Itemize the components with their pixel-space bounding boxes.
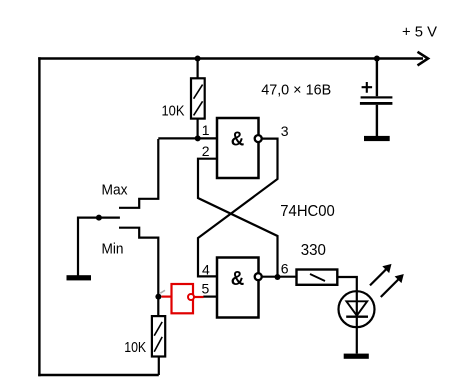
ground (capacitor): [364, 136, 390, 141]
svg-text:5: 5: [202, 280, 210, 296]
svg-text:1: 1: [202, 122, 210, 138]
wire Max switch upper lead: [119, 139, 158, 208]
NAND gate U1A 74HC00 body: [217, 118, 259, 178]
svg-text:330: 330: [301, 242, 326, 259]
capacitor C1 bottom plate: [360, 102, 393, 105]
wire R3 to LED: [337, 277, 357, 291]
svg-text:10K: 10K: [162, 102, 185, 119]
highlighted red inverter: body: [172, 284, 194, 313]
wire R2 bottom stem: [158, 357, 160, 376]
junction pin6 node: [275, 274, 281, 280]
LED D1 cathode bar: [346, 316, 368, 318]
resistor R1 interior strokes: [194, 85, 203, 116]
wire +5V top rail: [38, 57, 423, 59]
svg-text:47,0 × 16B: 47,0 × 16B: [261, 81, 331, 98]
resistor 330 (R3) body: [297, 270, 338, 285]
highlighted red inverter: left stub wire: [162, 296, 172, 298]
junction Min node / R2: [155, 294, 161, 300]
capacitor C1 top plate: [361, 96, 393, 98]
ground (LED): [344, 354, 369, 359]
U1B output bubble: [255, 273, 262, 280]
svg-text:+ 5 V: + 5 V: [402, 24, 437, 41]
svg-text:&: &: [231, 128, 245, 151]
svg-text:&: &: [231, 267, 245, 290]
remnant gray tick: [160, 290, 165, 293]
wire left rail: [38, 57, 40, 376]
capacitor C1 polarity plus: [362, 82, 373, 93]
wire Min switch contact lead: [119, 228, 158, 317]
svg-text:74HC00: 74HC00: [280, 203, 335, 220]
ground (switch common): [67, 275, 92, 280]
wire capacitor top stem: [376, 59, 378, 97]
wire R1 bottom stem: [197, 119, 199, 139]
resistor 10K bottom (R2) body: [152, 316, 165, 356]
+5V supply arrow head: [418, 52, 429, 66]
junction top rail / capacitor: [374, 56, 380, 62]
resistor 10K top (R1) body: [191, 78, 205, 118]
junction pin1 node: [195, 135, 201, 141]
svg-text:6: 6: [281, 261, 289, 277]
wire capacitor bottom stem: [376, 105, 378, 136]
LED D1 circle: [339, 291, 375, 327]
U1A output bubble: [255, 135, 262, 142]
LED light arrow 1: [370, 267, 388, 285]
junction switch pole: [96, 215, 102, 221]
svg-text:3: 3: [281, 123, 289, 139]
LED D1 triangle: [346, 301, 367, 315]
wire pin6 output: [262, 276, 297, 278]
svg-text:Max: Max: [102, 182, 128, 199]
wire pin1 (node SET): [158, 137, 217, 139]
highlighted red inverter: right stub wire: [194, 296, 203, 298]
svg-text:2: 2: [202, 143, 210, 159]
switch Max pole arm: [78, 217, 120, 219]
highlighted red inverter: bubble: [188, 294, 194, 300]
resistor R2 interior strokes: [154, 322, 162, 352]
wire pin3 output to pin4: [198, 139, 278, 277]
wire R1 top stem: [197, 59, 199, 80]
wire pin2 feedback to pin6: [198, 159, 278, 277]
NAND gate U1B 74HC00 body: [217, 258, 259, 318]
wire pin5 lead: [203, 296, 217, 298]
svg-text:4: 4: [202, 261, 210, 277]
svg-text:10K: 10K: [124, 339, 146, 356]
LED D1 anode/cathode wire through: [356, 292, 358, 354]
wire ground stem of switch pole: [77, 217, 79, 276]
junction top rail / R1: [195, 56, 201, 62]
LED light arrow 2: [381, 278, 401, 298]
resistor R3 interior stroke: [310, 274, 325, 281]
svg-text:Min: Min: [102, 240, 124, 257]
wire bottom rail: [38, 374, 159, 376]
